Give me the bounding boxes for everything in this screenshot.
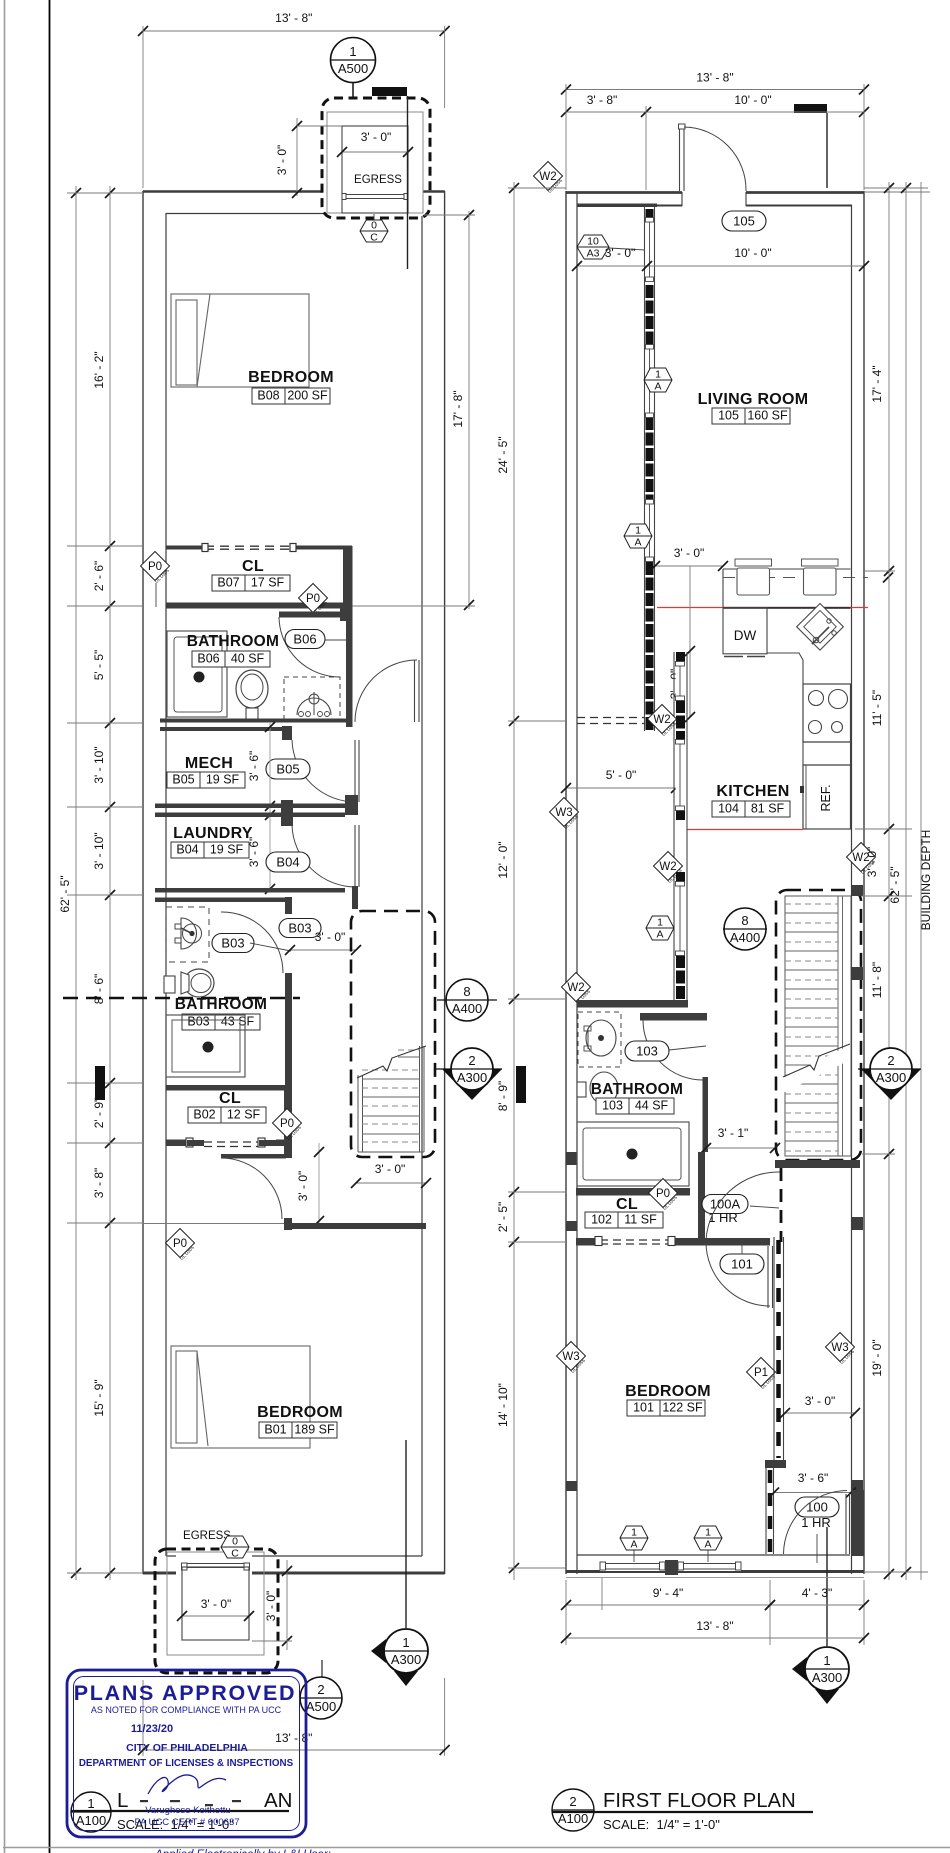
counter below stove [803, 742, 851, 765]
window tag stems (south) [633, 1549, 635, 1562]
svg-text:1: 1 [657, 917, 663, 929]
svg-text:B07: B07 [217, 576, 239, 590]
living window unit [646, 504, 654, 557]
svg-text:B03: B03 [221, 936, 244, 951]
CL B07 north wall dashed opening [205, 545, 293, 547]
sight line to 1/A300 (first floor) [826, 1527, 828, 1646]
svg-text:CL: CL [242, 558, 264, 575]
window tag diamond W3 (west) [550, 798, 579, 827]
stair dashed enclosure (lower) [351, 911, 435, 1157]
svg-text:1 HR: 1 HR [708, 1210, 738, 1225]
sheet left margin line [4, 0, 6, 1853]
south wall window (first floor) [600, 1556, 665, 1571]
section marker 2/A300 (lower plan) [434, 1068, 502, 1070]
B03 vanity dashed box [166, 907, 209, 962]
svg-text:PLANS APPROVED: PLANS APPROVED [74, 1681, 297, 1705]
living window unit [646, 222, 654, 277]
svg-text:3' - 10": 3' - 10" [92, 832, 106, 869]
svg-text:2: 2 [887, 1053, 894, 1068]
partition tag P0 (103) [649, 1179, 678, 1208]
room tag box 103 [596, 1098, 674, 1114]
bed symbol B08 [171, 294, 309, 387]
hall door header [221, 1154, 286, 1159]
right dim col 62-5 (first floor) [905, 182, 907, 1580]
svg-text:11/23/20: 11/23/20 [131, 1723, 173, 1735]
svg-text:105: 105 [718, 409, 739, 423]
living window wall lines [644, 207, 646, 731]
first floor north wall dashed segment [566, 192, 679, 194]
kitchen west wall window [676, 666, 685, 696]
door tag oval 103 [625, 1041, 669, 1061]
svg-text:B02: B02 [193, 1108, 215, 1122]
svg-text:B04: B04 [176, 843, 198, 857]
svg-text:1: 1 [635, 525, 641, 537]
living window unit [646, 349, 654, 413]
svg-text:B03: B03 [288, 921, 311, 936]
B03 shower [166, 1015, 245, 1077]
svg-text:A100: A100 [558, 1811, 588, 1826]
svg-text:105: 105 [733, 214, 755, 229]
first floor west wall outer face [565, 191, 567, 1574]
svg-text:DW: DW [734, 628, 757, 643]
first floor west wall inner face [576, 192, 578, 1574]
svg-text:3' - 0": 3' - 0" [296, 1171, 310, 1202]
egress window (top) [346, 194, 404, 196]
svg-text:19' - 0": 19' - 0" [870, 1339, 884, 1376]
svg-text:17' - 8": 17' - 8" [451, 390, 465, 427]
hall door arc [355, 660, 417, 722]
svg-text:17' - 4": 17' - 4" [870, 365, 884, 402]
hall door arc (B01 entry) [221, 1158, 282, 1219]
svg-text:W2: W2 [659, 861, 676, 873]
window tag diamond W2 (kitchen) [654, 852, 683, 881]
svg-text:2: 2 [468, 1053, 475, 1068]
svg-text:2' - 6": 2' - 6" [92, 561, 106, 592]
dashed 1hr partition (corridor) [780, 1168, 783, 1242]
kitchen sink [797, 603, 844, 650]
bar stool 2 [802, 559, 839, 566]
circle tag 1/A500 [331, 38, 376, 83]
dashed 1hr partition (corridor lower) [768, 1470, 773, 1552]
elevation marker 1/A300 (lower plan) [371, 1639, 386, 1663]
svg-text:CL: CL [219, 1090, 241, 1107]
egress 3-0 dim line (top) [342, 151, 408, 153]
kitchen west wall poche [676, 872, 685, 882]
lower level south wall window gap [176, 1552, 252, 1576]
dashed 1hr partition (bedroom) [776, 1240, 781, 1458]
partition tag P0 (B02) [273, 1109, 302, 1138]
window tag diamond W2 (bath) [562, 973, 591, 1002]
svg-text:3' - 8": 3' - 8" [92, 1168, 106, 1199]
svg-text:122 SF: 122 SF [662, 1401, 703, 1415]
room tag box B08 [252, 388, 330, 404]
svg-text:W3: W3 [555, 807, 572, 819]
svg-text:2: 2 [317, 1682, 324, 1697]
door tag oval 100A [702, 1195, 748, 1214]
svg-text:EGRESS: EGRESS [354, 174, 402, 186]
stair break line (lower) [357, 1046, 426, 1078]
bathroom B06 door header [279, 612, 341, 618]
svg-text:4' - 3": 4' - 3" [802, 1586, 833, 1600]
svg-text:B06: B06 [293, 632, 316, 647]
svg-text:P0: P0 [306, 593, 320, 605]
vestibule south wall band [577, 204, 657, 208]
svg-text:W2: W2 [567, 982, 584, 994]
counter dashed centerline [723, 577, 868, 579]
window tag diamond W2 (yard) [648, 705, 677, 734]
kitchen west wall poche [676, 700, 685, 740]
room tag box 102 [585, 1212, 663, 1228]
svg-text:3' - 0": 3' - 0" [674, 546, 705, 560]
svg-text:3' - 6": 3' - 6" [247, 837, 261, 868]
CL B07 wall jamb caps [202, 544, 208, 552]
kitchen west wall window [676, 744, 685, 806]
CL B02 door dashed (bifold) [204, 1141, 259, 1143]
dim 3-8/10-0 top [566, 111, 864, 113]
stair dashed enclosure (first floor) [776, 890, 861, 1160]
egress dim extension lines (top) [297, 125, 342, 127]
dim 17'-8 (right of plan) [468, 211, 470, 609]
corridor west wall lower [765, 1468, 767, 1554]
sight line to 1/A300 (bottom) [405, 1440, 407, 1628]
bedroom door leaf 101 [767, 1246, 769, 1308]
svg-text:1: 1 [655, 369, 661, 381]
svg-text:0: 0 [232, 1536, 238, 1548]
egress areaway inner rect (top) [327, 112, 423, 213]
svg-text:43 SF: 43 SF [221, 1015, 255, 1029]
kitchen west wall window [676, 886, 685, 951]
svg-text:2: 2 [569, 1794, 576, 1809]
svg-text:A400: A400 [452, 1001, 482, 1016]
svg-text:A300: A300 [391, 1652, 421, 1667]
washer dashed box B06 [284, 677, 340, 719]
first floor south wall [566, 1570, 864, 1573]
sheet border line [49, 0, 51, 1853]
svg-text:10' - 0": 10' - 0" [734, 93, 771, 107]
CL B07 south wall [166, 603, 352, 609]
svg-text:W3: W3 [562, 1351, 579, 1363]
bathroom B06 tub faucet [194, 672, 205, 683]
SE corner wall poche [852, 1490, 865, 1556]
wall section black bar (left) [95, 1066, 105, 1100]
svg-text:BATHROOM: BATHROOM [591, 1081, 684, 1098]
window tag hexagon 1/A (kitchen) [646, 916, 674, 940]
svg-text:24' - 5": 24' - 5" [496, 436, 510, 473]
stamp signature [148, 1775, 226, 1794]
stair break mask (first floor) [783, 1045, 850, 1093]
callout hexagon 0/C (bottom) [221, 1536, 249, 1558]
stair treads (lower) [357, 1075, 359, 1152]
stove [803, 684, 851, 742]
svg-text:8' - 6": 8' - 6" [92, 974, 106, 1005]
svg-text:0: 0 [371, 220, 377, 232]
svg-text:10: 10 [587, 236, 599, 248]
svg-text:103: 103 [602, 1099, 623, 1113]
LAUNDRY north wall [155, 813, 345, 818]
partition tag P0 (west CL) [141, 552, 170, 581]
svg-text:13' - 8": 13' - 8" [696, 71, 733, 85]
left dim extensions (first floor) [508, 187, 566, 189]
stair treads (first floor) [785, 896, 851, 1156]
svg-text:Applied Electronically by L&I: Applied Electronically by L&I User: [154, 1849, 331, 1853]
circle tag 2/A500 [321, 1660, 323, 1677]
window tag hexagon 1/A (living upper) [644, 368, 672, 392]
bathroom B06 door arc [279, 617, 340, 677]
svg-text:160 SF: 160 SF [747, 409, 788, 423]
svg-text:B04: B04 [276, 855, 299, 870]
CL 102 door dashed [600, 1239, 671, 1241]
room tag box 101 [627, 1400, 705, 1416]
lower level west wall inner face [165, 213, 167, 1556]
dim extension lines (left) [67, 192, 143, 194]
svg-text:3' - 6": 3' - 6" [798, 1471, 829, 1485]
red line upper (kitchen) [657, 607, 868, 609]
callout hexagon 0/C [373, 214, 375, 221]
svg-text:A300: A300 [812, 1670, 842, 1685]
room tag box B05 [167, 772, 245, 788]
bed symbol B01 [171, 1346, 310, 1448]
entry door jambs [681, 192, 683, 206]
kitchen west wall lines [673, 652, 675, 1000]
svg-text:CITY OF PHILADELPHIA: CITY OF PHILADELPHIA [126, 1742, 248, 1754]
svg-text:SCALE: 1/4" = 1'-0": SCALE: 1/4" = 1'-0" [603, 1817, 720, 1832]
svg-text:1: 1 [823, 1653, 830, 1668]
bathroom B06 south wall [160, 719, 352, 723]
svg-text:10' - 0": 10' - 0" [734, 246, 771, 260]
sight line from bar (first floor) [826, 113, 828, 188]
svg-text:W2: W2 [539, 171, 556, 183]
kitchen west wall poche [676, 652, 685, 662]
B03 toilet [164, 976, 175, 993]
svg-text:62' - 5": 62' - 5" [888, 866, 902, 903]
kitchen west wall poche [676, 955, 685, 1000]
lower level east wall outer face [444, 191, 446, 1574]
svg-text:11' - 5": 11' - 5" [870, 690, 884, 726]
door tag oval B04 [266, 852, 310, 872]
svg-text:3' - 0": 3' - 0" [361, 130, 392, 144]
entry door arc [684, 127, 746, 191]
roof hatch black bar (top) [372, 87, 407, 96]
svg-text:AN: AN [264, 1789, 292, 1812]
living window wall poche [646, 209, 654, 218]
callout hexagon 10/A3 [577, 235, 609, 259]
svg-text:LIVING ROOM: LIVING ROOM [698, 391, 809, 408]
svg-text:B01: B01 [264, 1423, 286, 1437]
window tag diamond W2 (east wall) [847, 843, 876, 872]
dim 5'-0 kitchen [566, 787, 676, 789]
CL 102 south wall [576, 1238, 600, 1246]
svg-text:9' - 4": 9' - 4" [653, 1586, 684, 1600]
stair break line (first floor) [783, 1044, 850, 1077]
title rule (lower) [71, 1810, 289, 1812]
door dim line MECH/LAUNDRY [269, 722, 271, 890]
svg-text:A500: A500 [338, 61, 368, 76]
segment dim line (left col) [109, 186, 111, 1580]
lower level north wall window gap [323, 188, 423, 195]
svg-text:3' - 0": 3' - 0" [201, 1597, 232, 1611]
CL B02 door jamb caps [186, 1138, 193, 1147]
kitchen west wall poche [676, 810, 685, 820]
door tag oval 105 [722, 211, 766, 231]
svg-text:A300: A300 [457, 1070, 487, 1085]
CL B02 north wall [166, 1085, 292, 1091]
side yard dashed lines [577, 717, 644, 719]
svg-text:15' - 9": 15' - 9" [92, 1379, 106, 1416]
MECH door arc [292, 740, 357, 802]
south wall window (first floor) [678, 1556, 741, 1571]
dim ext top (first floor) [565, 84, 567, 190]
svg-text:A: A [634, 537, 641, 549]
egress window (bottom) [184, 1563, 247, 1565]
partition tag P1 [747, 1358, 776, 1387]
svg-text:11' - 8": 11' - 8" [870, 962, 884, 998]
first floor north inner wall [654, 205, 852, 207]
chimney black bar (first floor) [794, 104, 827, 113]
B03 east wall lower [285, 973, 292, 1085]
first floor north wall solid segment [566, 191, 864, 194]
svg-text:P1: P1 [754, 1367, 768, 1379]
MECH door jamb [282, 726, 292, 740]
LAUNDRY door arc [292, 825, 357, 887]
svg-text:BUILDING DEPTH: BUILDING DEPTH [919, 830, 933, 931]
door tag oval B03 (right) [279, 919, 321, 938]
wall section black bar (first floor) [516, 1066, 526, 1103]
svg-text:11 SF: 11 SF [624, 1213, 657, 1227]
island counter front [723, 607, 851, 609]
door 100A arc [706, 1172, 781, 1240]
title circle 2/A100 [552, 1789, 594, 1831]
egress vertical 3-0 dim (top) [296, 118, 298, 196]
entry door leaf [679, 126, 681, 191]
svg-text:3' - 0": 3' - 0" [315, 930, 346, 944]
door tag oval 101 [720, 1254, 764, 1274]
svg-text:B06: B06 [197, 652, 219, 666]
elevation marker 1/A300 (first floor) [792, 1657, 807, 1681]
section cut dashed line 8/A400 [63, 997, 300, 999]
svg-text:KITCHEN: KITCHEN [716, 783, 789, 800]
svg-text:13' - 8": 13' - 8" [696, 1619, 733, 1633]
svg-text:A: A [656, 929, 663, 941]
B03 door arc [221, 912, 283, 973]
svg-text:3' - 0": 3' - 0" [375, 1162, 406, 1176]
svg-text:3' - 0": 3' - 0" [264, 1591, 278, 1622]
svg-text:3' - 1": 3' - 1" [718, 1126, 749, 1140]
island counter [723, 568, 851, 570]
svg-text:BEDROOM: BEDROOM [625, 1383, 711, 1400]
toilet B06 [236, 670, 268, 708]
section marker 2/A300 (first floor) [858, 1068, 921, 1070]
svg-text:P0: P0 [280, 1118, 294, 1130]
room tag box B03 [182, 1014, 260, 1030]
dim 3'-0 stairs [356, 1182, 426, 1184]
window tag hexagon 1/A (south 1) [620, 1526, 648, 1550]
stamp inner border [74, 1677, 300, 1831]
svg-text:81 SF: 81 SF [751, 802, 785, 816]
stair bottom wall (first floor) [775, 1160, 860, 1168]
CL 102 east wall [698, 1152, 705, 1242]
svg-text:189 SF: 189 SF [294, 1423, 335, 1437]
svg-text:14' - 10": 14' - 10" [496, 1383, 510, 1427]
svg-text:A: A [630, 1539, 637, 1551]
svg-text:44 SF: 44 SF [635, 1099, 669, 1113]
egress well rect (bottom) [182, 1567, 249, 1640]
dishwasher [723, 608, 767, 654]
svg-text:DEPARTMENT OF LICENSES & INSPE: DEPARTMENT OF LICENSES & INSPECTIONS [79, 1758, 294, 1769]
dim 13'-8 top [143, 30, 445, 32]
dim 13'-8 bottom (lower plan) [142, 1680, 144, 1756]
south wall center pier [665, 1560, 678, 1575]
svg-text:A: A [704, 1539, 711, 1551]
red line lower (kitchen) [687, 829, 803, 831]
svg-text:P0: P0 [656, 1188, 670, 1200]
svg-text:101: 101 [731, 1257, 753, 1272]
svg-text:L: L [117, 1789, 128, 1812]
svg-text:C: C [370, 232, 378, 244]
svg-text:101: 101 [633, 1401, 654, 1415]
CL B07 east wall [343, 546, 350, 608]
overall dim line 62'-5 (left) [75, 186, 77, 1580]
dim 3'-0 kitchen opening [655, 565, 723, 567]
svg-text:19 SF: 19 SF [210, 843, 244, 857]
room tag box 104 [712, 801, 790, 817]
window tag hexagon 1/A (living lower) [624, 524, 652, 548]
svg-text:13' - 8": 13' - 8" [275, 11, 312, 25]
CL B02 south wall [166, 1140, 187, 1147]
kitchen vertical dim 3'-0 [689, 566, 691, 717]
svg-text:3' - 0": 3' - 0" [605, 246, 636, 260]
svg-text:A400: A400 [730, 930, 760, 945]
svg-text:5' - 5": 5' - 5" [92, 650, 106, 681]
egress vertical dim (bottom) [286, 1560, 288, 1650]
svg-text:A300: A300 [876, 1070, 906, 1085]
door tag oval B06 [285, 630, 325, 649]
door 100 arc [784, 1491, 848, 1555]
svg-text:8: 8 [463, 984, 470, 999]
svg-text:A: A [654, 381, 661, 393]
window tag diamond W2 (north) [534, 162, 563, 191]
svg-text:1: 1 [631, 1527, 637, 1539]
title circle 1/A100 [71, 1792, 111, 1832]
kitchen counter edge [767, 653, 803, 684]
svg-text:3' - 0": 3' - 0" [805, 1394, 836, 1408]
sight line from egress bar [407, 96, 409, 269]
svg-text:1: 1 [349, 44, 356, 59]
svg-text:EGRESS: EGRESS [183, 1530, 231, 1542]
dim 3'-0 hall door [318, 1143, 320, 1228]
dim ext top right [444, 26, 446, 108]
svg-text:BEDROOM: BEDROOM [248, 369, 334, 386]
hall west wall (upper) [346, 546, 353, 727]
svg-text:1: 1 [87, 1796, 94, 1811]
hall south wall [288, 1223, 426, 1229]
MECH door leaf [354, 740, 356, 802]
svg-text:A100: A100 [76, 1813, 106, 1828]
bathroom B06 tub [167, 631, 227, 717]
svg-text:B05: B05 [172, 773, 194, 787]
lower level west wall outer face [142, 191, 144, 1574]
svg-text:100: 100 [806, 1500, 828, 1515]
svg-text:P0: P0 [148, 561, 162, 573]
svg-text:40 SF: 40 SF [231, 652, 265, 666]
dim 13'-8 top (first floor) [566, 89, 864, 91]
bathroom 103 door header [640, 1013, 707, 1021]
CL 102 door jamb caps [595, 1237, 602, 1246]
bar stool 1 [735, 559, 772, 566]
living window wall poche [646, 562, 654, 731]
first floor east wall inner face [851, 205, 853, 1574]
B03 oval leader [250, 943, 291, 951]
window tag diamond W3 (bedroom east) [826, 1333, 855, 1362]
